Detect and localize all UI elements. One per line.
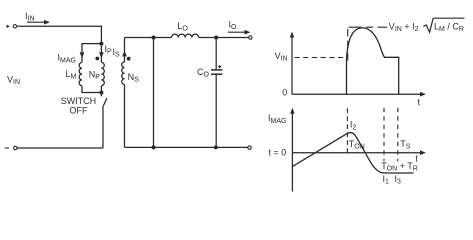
terminal + (top-left input) (6, 25, 17, 28)
winding NS (secondary) (122, 62, 125, 84)
axis Y (top plot) (290, 32, 294, 95)
node: freewheel junction bottom (152, 145, 156, 149)
switch (open) (101, 95, 107, 107)
svg-text:LO: LO (177, 21, 188, 33)
inductor LO (172, 34, 199, 37)
wire: LM bottom to junction (82, 86, 101, 93)
dashed vertical at TS (397, 108, 399, 161)
wire: branch to LM (82, 44, 100, 63)
label IIN with arrow (27, 20, 50, 25)
svg-text:IIN: IIN (25, 11, 35, 23)
svg-text:VIN: VIN (275, 51, 288, 63)
svg-text:IP: IP (105, 44, 113, 56)
dashed vertical at TON (346, 108, 348, 153)
wire: NP branch down from junction (100, 46, 102, 63)
svg-text:VIN: VIN (7, 75, 20, 87)
inductor LM (magnetizing) (79, 63, 82, 86)
label IO with arrow (228, 30, 251, 35)
dashed peak level (349, 26, 388, 28)
wire: NS top (124, 38, 126, 63)
svg-text:IO: IO (229, 20, 238, 32)
node: freewheel junction top (152, 36, 156, 40)
phase dot secondary (127, 57, 131, 61)
svg-text:TON + TR: TON + TR (381, 161, 418, 173)
axis Y (bottom plot) (290, 108, 294, 192)
node: CO top junction (214, 36, 218, 40)
svg-text:t: t (418, 97, 421, 107)
arrow IP (down) (99, 52, 104, 58)
svg-text:VIN + I2: VIN + I2 (389, 22, 419, 34)
polarity plus of CO (218, 65, 221, 68)
svg-text:IMAG: IMAG (268, 113, 286, 125)
waveform IMAG (292, 132, 413, 173)
wire: switch to bottom rail (102, 107, 104, 148)
node: CO bottom junction (214, 145, 218, 149)
wire: input top rail (17, 26, 101, 41)
terminal output bottom (248, 146, 251, 149)
wire: NP bottom (100, 86, 102, 91)
capacitor CO (211, 40, 222, 146)
label VIN + I2 sqrt(LM/CR) (389, 18, 465, 33)
node: primary bottom junction (99, 91, 103, 95)
waveform VIN pulse (347, 28, 399, 94)
svg-text:0: 0 (282, 88, 287, 98)
arrow IS (up) (122, 51, 127, 57)
axis X (top plot) (292, 92, 426, 97)
wire: freewheel vertical (153, 38, 155, 148)
arrow IMAG (down) (80, 52, 85, 58)
svg-text:I3: I3 (395, 174, 402, 186)
svg-text:NS: NS (128, 72, 140, 84)
svg-text:I2: I2 (350, 120, 357, 132)
svg-text:CO: CO (197, 67, 210, 79)
dashed vertical at pulse start (347, 29, 349, 64)
dashed VIN level (295, 57, 345, 59)
terminal output top (249, 36, 252, 39)
dashed vertical at TON+TR (383, 108, 385, 161)
axis X (bottom plot) (292, 150, 426, 155)
svg-text:TON: TON (349, 139, 365, 151)
wire: secondary top rail left (125, 37, 172, 39)
svg-text:IMAG: IMAG (58, 53, 76, 65)
svg-text:TS: TS (400, 139, 411, 151)
node: primary top junction (99, 42, 103, 46)
svg-text:I1: I1 (383, 174, 390, 186)
svg-text:t = 0: t = 0 (269, 147, 287, 157)
wire: top rail to output (199, 37, 249, 39)
wire: NS bottom to rail (124, 84, 126, 147)
svg-text:t: t (415, 153, 418, 163)
svg-text:IS: IS (113, 47, 121, 59)
svg-text:NP: NP (89, 70, 101, 82)
svg-text:LM / CR: LM / CR (434, 22, 464, 34)
wire: secondary bottom rail (125, 146, 248, 148)
wire: primary bottom rail (17, 147, 103, 149)
winding NP (primary) (101, 63, 104, 86)
terminal - (bottom-left input) (5, 146, 17, 149)
svg-text:LM: LM (66, 69, 77, 81)
phase dot primary (95, 57, 99, 61)
label SWITCH OFF (61, 96, 96, 115)
svg-text:OFF: OFF (70, 105, 88, 115)
